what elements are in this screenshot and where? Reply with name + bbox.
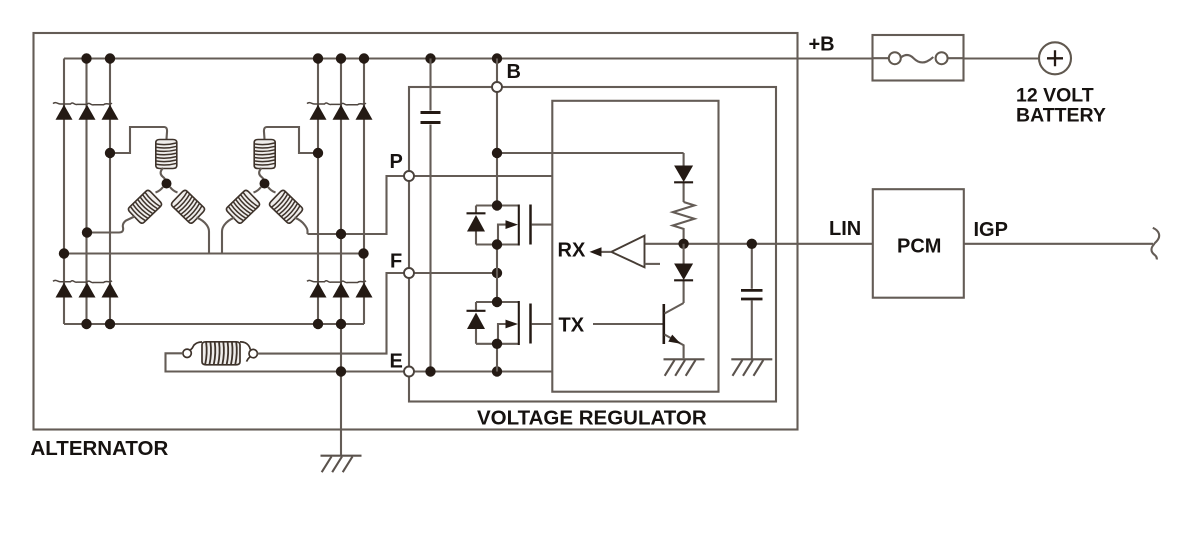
svg-text:P: P [390,151,403,173]
wire rectifier column 3 [109,59,111,325]
coil stator1 right [170,189,205,224]
node stator1 left phase [82,227,92,237]
wire mosfet low segment [496,344,498,372]
wire TX to base [593,323,663,325]
wire F to mosfet node [414,272,497,274]
wire rectifier column 4 [317,59,319,325]
coil stator2 right [268,189,303,224]
diode trio bottom-left [53,280,119,297]
coil stator1 top [156,140,177,169]
node E ground junction [336,366,346,376]
node star1 [162,179,172,189]
fuse F1 element [873,52,964,64]
node Q2 drain [492,297,502,307]
node bottom rail 3 [105,319,115,329]
wire star1 to right coil [170,187,178,193]
wire F from right brush [257,273,404,354]
wire phase bus B (shared) [64,252,364,254]
terminal P [404,171,414,181]
capacitor C1 wire [429,59,431,372]
diode trio top-right [307,103,373,120]
node bottom rail 2 [81,319,91,329]
transistor Q3 collector [665,303,684,314]
terminal B [492,82,502,92]
wire rectifier column 5 + ground drop [340,59,342,456]
wire E line in regulator [414,370,552,372]
wire star2 to left coil [254,187,262,193]
wire E from left brush [166,353,405,371]
buffer U1 (RX) [611,236,644,268]
wire rectifier column 6 [363,59,365,325]
node bottom rail 4 [313,319,323,329]
node E line cap [425,366,435,376]
node bus A col5 [336,229,346,239]
wire stator1 top coil to star [161,168,167,184]
battery symbol [1039,42,1071,74]
coil stator2 left [225,189,260,224]
wire stator2 top coil to star [259,168,265,184]
wire internal top rail [497,152,684,154]
ground (C2) [731,359,772,376]
diode D2 lead [683,244,685,303]
transistor Q3 base bar [662,304,665,344]
svg-text:12 VOLT: 12 VOLT [1016,85,1094,107]
wire star2 to right coil [268,187,276,193]
terminal E [404,367,414,377]
diode D1 bar [674,181,693,183]
wire brushes to coil [194,342,251,350]
capacitor C2 wire top [751,244,753,289]
wire stator1 left phase lead [87,217,135,233]
svg-text:+B: +B [809,34,835,56]
field coil brush left [183,345,194,357]
coil stator1 left [127,189,162,224]
node E line B-column [492,366,502,376]
diode D1 lead [683,153,685,202]
capacitor C2 wire bottom [751,301,753,360]
wire LIN node line [645,243,873,245]
svg-text:IGP: IGP [974,219,1008,241]
capacitor C1 plates [421,113,441,123]
field coil L1 [202,342,240,365]
node star2 [260,179,270,189]
svg-text:ALTERNATOR: ALTERNATOR [31,437,169,460]
svg-text:LIN: LIN [829,218,861,240]
fuse F1 box [873,35,964,81]
node stator2 top phase [313,148,323,158]
svg-text:BATTERY: BATTERY [1016,105,1106,127]
wire rectifier bottom rail [64,323,364,325]
diode trio bottom-right [307,280,373,297]
node bottom rail 5 [336,319,346,329]
wire +B rail [64,57,873,59]
wire P into regulator [414,175,552,177]
coil stator2 top [254,140,275,169]
wire buffer stub [645,263,661,265]
Q3 emitter arrowhead [668,335,681,344]
resistor R1 [673,202,695,244]
wire rectifier column 1 [63,59,65,325]
svg-text:F: F [390,251,402,273]
diode D2 bar [674,279,693,281]
RX arrowhead [590,247,602,256]
mosfet Q2 (low side) [467,301,553,345]
node F mosfet mid [492,268,502,278]
node Q1 source [492,239,502,249]
ground (inner IC) [664,359,705,376]
wire stator1 top phase lead [110,127,167,153]
wire star1 to left coil [156,187,164,193]
wire phase bus A to P [308,176,405,234]
terminal F [404,268,414,278]
svg-text:RX: RX [558,240,586,262]
voltage regulator box [409,87,776,402]
node bus B left [59,248,69,258]
PCM box [873,189,964,298]
wire rectifier column 2 [85,59,87,325]
node C2 top [747,239,757,249]
node stator1 top phase [105,148,115,158]
wire stator1 right phase drop [197,218,210,254]
wire B drop into regulator [496,59,498,206]
svg-text:B: B [507,61,521,83]
capacitor C2 plates [741,290,763,299]
wire mosfet mid segment [496,245,498,303]
wire fuse to battery [964,57,1040,59]
diode D1 [674,166,693,183]
node R1 bottom [678,239,688,249]
diode D2 [674,264,693,281]
wire IGP [964,243,1153,245]
field coil brush right [247,349,258,361]
diode trio top-left [53,103,119,120]
transistor Q3 emitter [665,335,684,359]
svg-text:PCM: PCM [897,236,941,258]
node bus B right [358,248,368,258]
wire stator2 top phase lead [264,127,318,153]
node B internal rail [492,148,502,158]
wire stator2 left phase drop [222,218,235,254]
mosfet Q1 (high side) [467,205,553,246]
inner IC box [552,101,718,392]
svg-text:VOLTAGE REGULATOR: VOLTAGE REGULATOR [477,407,707,430]
wire RX arrow line [598,251,611,253]
node Q2 source [492,339,502,349]
alternator box [34,33,798,430]
node Q1 drain [492,200,502,210]
node +B rail dots [81,53,502,63]
connector break symbol [1151,228,1159,260]
svg-text:E: E [390,351,403,373]
ground (alternator) [321,456,362,473]
svg-text:TX: TX [559,315,585,337]
wire stator2 right phase drop to P bus [295,218,308,235]
